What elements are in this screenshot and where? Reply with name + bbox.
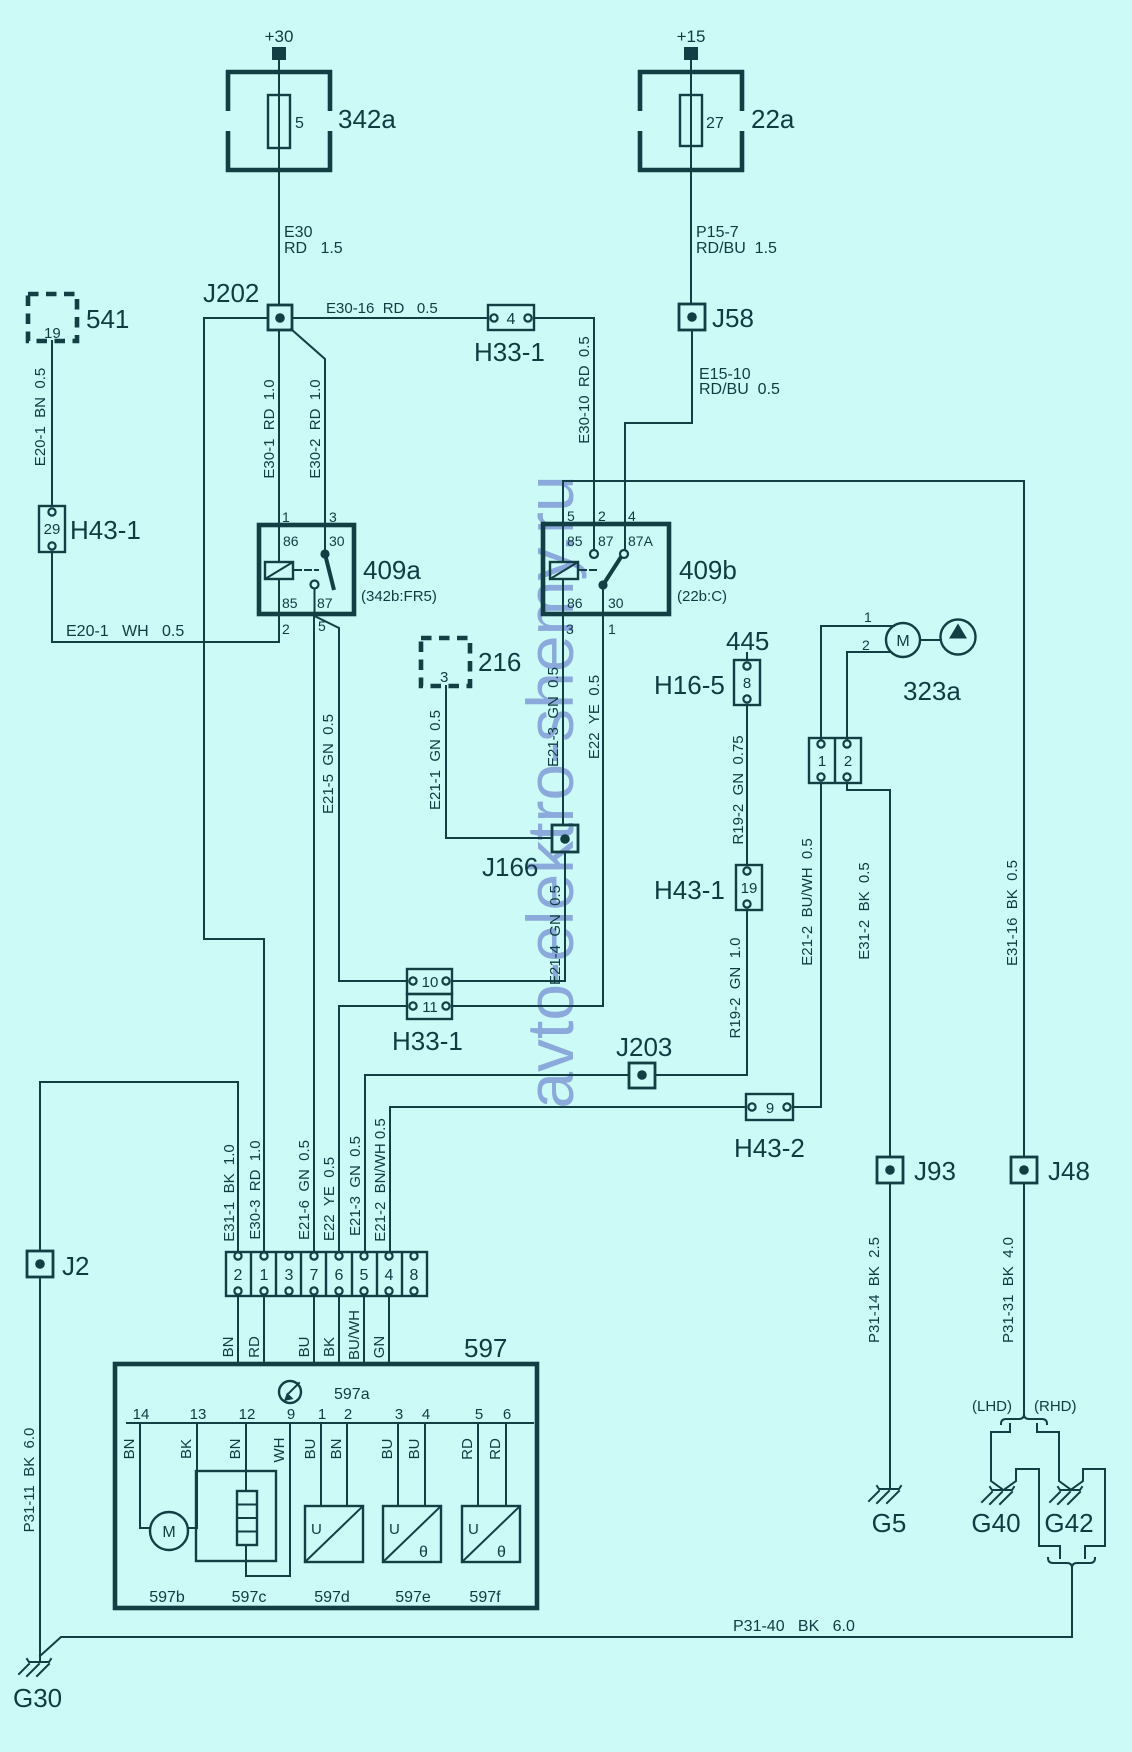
relay 409b pin labels <box>566 508 654 637</box>
wire 597 pin 3 to 597e <box>397 1423 399 1506</box>
svg-text:R19-2 GN 0.75: R19-2 GN 0.75 <box>730 735 747 844</box>
wire E30-16 J202 to H33-1 pin 4 <box>292 317 488 319</box>
ground G5 <box>869 1486 906 1538</box>
wire H43-1 pin29 down to E20-1 WH <box>51 552 53 642</box>
wire E31-2 BK pump connector pin 2 to J93 <box>847 783 890 1157</box>
svg-text:(LHD): (LHD) <box>972 1398 1012 1415</box>
wire E31-1 BK loop from J2 to pump connector pin 2 <box>40 1082 238 1252</box>
motor 323a wire pin 1 <box>821 626 894 742</box>
ground G30 <box>13 1659 62 1713</box>
svg-text:BU: BU <box>302 1439 319 1460</box>
wire E30-2 to relay 409a pin 3 <box>291 329 325 554</box>
svg-text:RD: RD <box>459 1438 476 1460</box>
wire J203 left to pump connector pin 5 (E21-3) <box>365 1075 629 1252</box>
wire E20-1 WH 0.5 <box>52 641 279 643</box>
relay 409a blade <box>325 554 334 590</box>
svg-text:E31-1 BK 1.0: E31-1 BK 1.0 <box>221 1144 238 1242</box>
svg-text:E20-1 WH 0.5: E20-1 WH 0.5 <box>66 623 184 640</box>
svg-text:P31-40 BK 6.0: P31-40 BK 6.0 <box>733 1618 855 1635</box>
svg-text:29: 29 <box>44 521 61 538</box>
svg-text:597c: 597c <box>232 1589 267 1606</box>
fuse box 22a <box>638 70 744 172</box>
fuse element 5 in 342a <box>268 95 304 148</box>
svg-text:H16-5: H16-5 <box>654 670 725 700</box>
svg-text:J202: J202 <box>203 278 259 308</box>
svg-text:597e: 597e <box>395 1589 431 1606</box>
wire E30-1 to relay 409a pin 1 <box>278 330 280 562</box>
svg-text:H33-1: H33-1 <box>474 337 545 367</box>
svg-text:E21-2 BU/WH 0.5: E21-2 BU/WH 0.5 <box>799 838 816 966</box>
label 409a (342b:FR5) <box>361 555 437 605</box>
wire 597 pin 5 to 597f <box>477 1423 479 1506</box>
brace stubs <box>1010 1424 1037 1432</box>
wire P31-11 BK 6.0 J2 to G30 <box>39 1277 41 1662</box>
svg-text:P31-11 BK 6.0: P31-11 BK 6.0 <box>21 1428 38 1533</box>
svg-text:87: 87 <box>317 595 333 611</box>
wire 597 pin 12 to sender resistor <box>245 1423 247 1491</box>
svg-text:M: M <box>162 1524 175 1541</box>
wire E21-3 relay 409b pin 3 to J166 <box>562 579 564 824</box>
svg-text:BU: BU <box>296 1337 313 1358</box>
wire H43-2 pin 9 left to pump connector pin 4 (E21-2 BN/WH) <box>390 1107 746 1252</box>
svg-text:2: 2 <box>282 621 290 637</box>
svg-text:10: 10 <box>422 974 439 991</box>
svg-text:22a: 22a <box>751 104 795 134</box>
svg-text:1: 1 <box>282 509 290 525</box>
wire 597 pin 9 from sender resistor <box>246 1423 290 1576</box>
svg-text:J2: J2 <box>62 1251 89 1281</box>
wire P31-14 BK 2.5 J93 to G5 <box>889 1183 891 1487</box>
internal pin numbers of 597 <box>133 1406 512 1423</box>
svg-text:E21-4 GN 0.5: E21-4 GN 0.5 <box>547 885 564 985</box>
svg-text:RD: RD <box>487 1438 504 1460</box>
svg-text:5: 5 <box>475 1406 483 1423</box>
motor 323a wire pin 2 <box>847 652 891 742</box>
component 541 dashed box <box>28 294 129 342</box>
internal bus line of 597 <box>127 1422 533 1424</box>
svg-text:409a: 409a <box>363 555 421 585</box>
G40 fork right prong <box>1005 1469 1039 1489</box>
connector row circles <box>234 1252 417 1294</box>
wire 597 pin 6 to 597f <box>505 1423 507 1506</box>
svg-text:E31-16 BK 0.5: E31-16 BK 0.5 <box>1004 860 1021 966</box>
svg-text:9: 9 <box>766 1100 774 1117</box>
relay 409a <box>259 525 354 614</box>
wire H43-2 pin 9 right up to washer pump pin 1 <box>793 783 821 1107</box>
sensor 597e <box>383 1506 441 1606</box>
wire pin4 to 597 GN <box>388 1296 390 1364</box>
pump symbol of 323a <box>941 620 976 655</box>
svg-text:(RHD): (RHD) <box>1034 1398 1077 1415</box>
wire G42 alt branch down <box>1085 1469 1105 1558</box>
wire LHD branch to G40 fork <box>991 1432 1010 1489</box>
svg-text:12: 12 <box>239 1406 256 1423</box>
svg-text:19: 19 <box>44 325 61 342</box>
svg-text:GN: GN <box>371 1336 388 1359</box>
svg-text:8: 8 <box>410 1267 419 1284</box>
svg-text:2: 2 <box>598 508 606 524</box>
svg-text:WH: WH <box>271 1438 288 1463</box>
svg-text:342a: 342a <box>338 104 396 134</box>
svg-text:14: 14 <box>133 1406 150 1423</box>
relay 409b pin 85 wire with top link <box>563 481 1024 562</box>
svg-text:445: 445 <box>726 626 769 656</box>
svg-text:E22 YE 0.5: E22 YE 0.5 <box>321 1157 338 1241</box>
relay 409a contact 30 dot <box>320 549 329 558</box>
svg-text:4: 4 <box>422 1406 430 1423</box>
svg-text:E30-16 RD 0.5: E30-16 RD 0.5 <box>326 300 438 317</box>
relay 409a pin 87 stub <box>314 589 316 615</box>
svg-text:θ: θ <box>419 1544 428 1561</box>
wire H33-1 pin 11 to pump connector pin 6 (E22 YE) <box>339 1006 407 1252</box>
wire E21-5 GN relay 409a pin 5 to H33-1 pin 10 <box>315 616 408 981</box>
relay 409b coil <box>550 562 578 579</box>
wire E21-4 GN J166 to H33-1 pin 10 <box>452 852 565 981</box>
svg-text:G40: G40 <box>971 1508 1020 1538</box>
junction J48 <box>1011 1156 1090 1186</box>
relay 409b dashed link <box>580 569 600 571</box>
svg-text:85: 85 <box>282 595 298 611</box>
wire E31-16 BK from relay 409b link down to J48 <box>1023 481 1025 1157</box>
svg-text:3: 3 <box>440 669 448 686</box>
fuse box 342a <box>226 70 332 172</box>
svg-text:+15: +15 <box>677 27 706 46</box>
internal wire colours of 597 <box>121 1438 504 1463</box>
wire label P15-7 RD/BU 1.5 <box>696 224 777 257</box>
junction J2 <box>27 1251 89 1281</box>
label E15-10 RD/BU 0.5 <box>699 366 780 398</box>
svg-text:8: 8 <box>743 675 751 692</box>
svg-text:2: 2 <box>344 1406 352 1423</box>
wire pin5 to 597 BU/WH <box>363 1296 365 1364</box>
svg-text:H43-2: H43-2 <box>734 1133 805 1163</box>
svg-text:1: 1 <box>260 1267 269 1284</box>
wire pin6 to 597 BK <box>338 1296 340 1364</box>
ground G40 <box>971 1487 1020 1538</box>
svg-text:+30: +30 <box>265 27 294 46</box>
pump harness connector row pins 2 1 3 7 6 5 4 8 <box>226 1252 427 1296</box>
svg-text:G42: G42 <box>1044 1508 1093 1538</box>
svg-text:J58: J58 <box>712 303 754 333</box>
svg-text:4: 4 <box>507 311 516 328</box>
svg-text:P15-7: P15-7 <box>696 224 739 241</box>
motor 597b <box>149 1512 188 1606</box>
svg-text:87A: 87A <box>628 533 654 549</box>
svg-text:3: 3 <box>329 509 337 525</box>
svg-text:1: 1 <box>864 609 872 625</box>
wire pin7 to 597 BU <box>313 1296 315 1364</box>
node +15 terminal <box>677 27 706 60</box>
svg-text:2: 2 <box>862 637 870 653</box>
bottom brace <box>1048 1558 1095 1568</box>
svg-text:13: 13 <box>190 1406 207 1423</box>
connector H43-1 pin 29 <box>39 506 141 552</box>
wire RHD branch to G42 fork <box>1037 1432 1070 1489</box>
wire relay 409a pin 2 to E20-1 WH <box>278 579 280 642</box>
svg-text:6: 6 <box>503 1406 511 1423</box>
ground G42 <box>1044 1487 1093 1538</box>
svg-text:409b: 409b <box>679 555 737 585</box>
svg-text:85: 85 <box>567 533 583 549</box>
svg-text:E21-3 GN 0.5: E21-3 GN 0.5 <box>347 1136 364 1236</box>
wire 597 pin 4 to 597e <box>424 1423 426 1506</box>
svg-text:RD 1.5: RD 1.5 <box>284 240 343 257</box>
svg-text:U: U <box>311 1521 322 1538</box>
connector H43-2 pin 9 <box>734 1094 805 1163</box>
wire G40 alt branch down <box>1039 1469 1060 1558</box>
G42 fork right prong <box>1072 1469 1105 1489</box>
svg-text:G5: G5 <box>872 1508 907 1538</box>
svg-text:597f: 597f <box>469 1589 501 1606</box>
wire R19-2 GN 0.75 H16-5 to H43-1 <box>746 705 748 865</box>
fuse element 27 in 22a <box>680 95 724 146</box>
svg-text:BK: BK <box>178 1439 195 1459</box>
svg-text:E21-5 GN 0.5: E21-5 GN 0.5 <box>320 714 337 814</box>
svg-text:19: 19 <box>741 880 758 897</box>
svg-text:BN: BN <box>328 1439 345 1460</box>
svg-text:(342b:FR5): (342b:FR5) <box>361 588 437 605</box>
node +30 terminal <box>265 27 294 60</box>
wire 597 pin 13 to motor <box>188 1423 197 1528</box>
svg-text:27: 27 <box>706 115 724 132</box>
svg-text:E30-3 RD 1.0: E30-3 RD 1.0 <box>247 1140 264 1239</box>
svg-text:E30-10 RD 0.5: E30-10 RD 0.5 <box>576 336 593 444</box>
svg-text:E21-2 BN/WH 0.5: E21-2 BN/WH 0.5 <box>372 1118 389 1241</box>
svg-text:U: U <box>468 1521 479 1538</box>
svg-text:87: 87 <box>598 533 614 549</box>
connector H16-5 pin 8 <box>654 653 760 705</box>
svg-text:3: 3 <box>395 1406 403 1423</box>
wire 597 pin 2 to 597d <box>346 1423 348 1506</box>
relay 409a pin labels <box>282 509 345 637</box>
wire pin2 to 597 BN <box>237 1296 239 1364</box>
svg-text:3: 3 <box>285 1267 294 1284</box>
svg-text:597a: 597a <box>334 1386 370 1403</box>
symbol 597a rotation icon <box>279 1381 301 1403</box>
svg-text:9: 9 <box>287 1406 295 1423</box>
svg-text:E30: E30 <box>284 224 313 241</box>
svg-text:E21-3 GN 0.5: E21-3 GN 0.5 <box>545 667 562 767</box>
svg-text:2: 2 <box>844 753 852 770</box>
svg-text:M: M <box>896 633 909 650</box>
svg-text:J93: J93 <box>914 1156 956 1186</box>
sensor 597d <box>305 1506 363 1606</box>
connector H33-1 pin 11 <box>392 994 463 1056</box>
svg-text:RD/BU 1.5: RD/BU 1.5 <box>696 240 777 257</box>
svg-text:E20-1 BN 0.5: E20-1 BN 0.5 <box>32 368 49 466</box>
svg-text:4: 4 <box>385 1267 394 1284</box>
link motor to pump <box>920 639 941 641</box>
svg-text:541: 541 <box>86 304 129 334</box>
wire E22 YE relay 409b pin 1 to H33-1 pin 11 <box>452 589 603 1006</box>
wire E20-1 BN from 541 to H43-1 pin 29 <box>51 341 53 506</box>
svg-text:E21-1 GN 0.5: E21-1 GN 0.5 <box>427 710 444 810</box>
wire E21-1 GN from 216 to J166 <box>446 686 552 838</box>
svg-text:4: 4 <box>628 508 636 524</box>
relay 409b contact 87A circle <box>620 550 628 558</box>
svg-text:E30-1 RD 1.0: E30-1 RD 1.0 <box>261 379 278 478</box>
wire colour labels above 597 <box>220 1310 388 1360</box>
svg-text:86: 86 <box>567 595 583 611</box>
brace below J48 wire <box>1001 1414 1047 1424</box>
svg-text:1: 1 <box>608 621 616 637</box>
connector H43-1 pin 19 <box>654 865 762 910</box>
svg-text:1: 1 <box>318 1406 326 1423</box>
svg-text:H43-1: H43-1 <box>70 515 141 545</box>
motor M of 323a <box>886 623 920 657</box>
svg-text:11: 11 <box>422 999 438 1016</box>
wire P15-7 from +15 through fuse 27 to J58 <box>690 60 692 304</box>
connector H33-1 pin 10 <box>407 969 452 994</box>
svg-text:323a: 323a <box>903 676 961 706</box>
svg-text:H33-1: H33-1 <box>392 1026 463 1056</box>
svg-text:597d: 597d <box>314 1589 350 1606</box>
svg-text:30: 30 <box>608 595 624 611</box>
relay 409a contact 87 circle <box>311 581 319 589</box>
svg-text:5: 5 <box>295 115 304 132</box>
wire pin1 to 597 RD <box>263 1296 265 1364</box>
svg-text:E21-6 GN 0.5: E21-6 GN 0.5 <box>296 1140 313 1240</box>
junction J202 <box>203 278 292 330</box>
relay 409a dashed link <box>295 569 318 571</box>
svg-text:BU: BU <box>406 1439 423 1460</box>
svg-text:1: 1 <box>818 753 826 770</box>
relay 409b <box>543 524 669 614</box>
connector row pin numbers <box>234 1267 419 1284</box>
wire E21-6 GN relay 409a pin 5 to pump connector pin 7 <box>313 614 315 1252</box>
svg-text:86: 86 <box>283 533 299 549</box>
relay 409b contact 30 dot <box>598 580 607 589</box>
svg-text:R19-2 GN 1.0: R19-2 GN 1.0 <box>727 938 744 1039</box>
svg-text:U: U <box>389 1521 400 1538</box>
junction J58 <box>679 303 754 333</box>
fuel pump unit 597 box <box>115 1364 537 1608</box>
labels pins 1 2 of 323a <box>862 609 872 653</box>
wire E30 from +30 through fuse 5 to J202 <box>278 60 280 305</box>
svg-text:J48: J48 <box>1048 1156 1090 1186</box>
svg-text:3: 3 <box>566 621 574 637</box>
relay 409b blade <box>603 557 621 585</box>
svg-text:G30: G30 <box>13 1683 62 1713</box>
wire J203 right up to H43-1 pin 19 <box>655 910 747 1075</box>
relay 409b contact 87 circle <box>590 550 598 558</box>
junction J93 <box>877 1156 956 1186</box>
svg-text:RD: RD <box>246 1336 263 1358</box>
svg-text:2: 2 <box>234 1267 243 1284</box>
svg-text:BK: BK <box>321 1337 338 1357</box>
wire label E30 RD 1.5 <box>284 224 343 257</box>
svg-text:P31-31 BK 4.0: P31-31 BK 4.0 <box>1000 1237 1017 1343</box>
wire E30-10 to relay 409b pin 87 <box>534 318 594 550</box>
svg-text:J203: J203 <box>616 1032 672 1062</box>
svg-text:E30-2 RD 1.0: E30-2 RD 1.0 <box>307 379 324 478</box>
svg-text:216: 216 <box>478 647 521 677</box>
svg-text:BU: BU <box>379 1439 396 1460</box>
svg-text:7: 7 <box>310 1267 319 1284</box>
svg-text:BU/WH: BU/WH <box>346 1310 363 1360</box>
wire P31-40 BK 6.0 to G30 <box>40 1568 1072 1656</box>
svg-text:30: 30 <box>329 533 345 549</box>
label 409b (22b:C) <box>677 555 737 605</box>
svg-text:BN: BN <box>220 1337 237 1358</box>
svg-text:BN: BN <box>227 1439 244 1460</box>
svg-text:J166: J166 <box>482 852 538 882</box>
svg-text:6: 6 <box>335 1267 344 1284</box>
svg-text:E31-2 BK 0.5: E31-2 BK 0.5 <box>856 862 873 960</box>
wire J202 left branch down (E30-3) <box>204 318 268 1252</box>
wire E15-10 J58 to relay 409b pin 87A <box>625 330 692 550</box>
svg-text:597: 597 <box>464 1333 507 1363</box>
connector H33-1 pin 4 <box>474 305 545 367</box>
washer pump 2-pin connector <box>809 738 861 783</box>
svg-text:P31-14 BK 2.5: P31-14 BK 2.5 <box>866 1237 883 1343</box>
sensor 597f <box>462 1506 520 1606</box>
svg-text:5: 5 <box>360 1267 369 1284</box>
svg-text:5: 5 <box>567 508 575 524</box>
component 216 dashed box <box>421 638 521 686</box>
svg-text:BN: BN <box>121 1439 138 1460</box>
fuel level sender 597c <box>196 1471 276 1606</box>
junction J203 <box>616 1032 672 1088</box>
svg-text:θ: θ <box>497 1544 506 1561</box>
svg-text:(22b:C): (22b:C) <box>677 588 727 605</box>
wire 597 pin 14 to motor <box>140 1423 150 1528</box>
wire P31-31 BK 4.0 J48 down <box>1023 1183 1025 1414</box>
relay 409a coil <box>265 562 293 579</box>
junction J166 <box>482 825 578 882</box>
svg-text:H43-1: H43-1 <box>654 875 725 905</box>
wire 597 pin 1 to 597d <box>320 1423 322 1506</box>
svg-text:RD/BU 0.5: RD/BU 0.5 <box>699 381 780 398</box>
svg-text:597b: 597b <box>149 1589 185 1606</box>
svg-text:E22 YE 0.5: E22 YE 0.5 <box>586 675 603 759</box>
